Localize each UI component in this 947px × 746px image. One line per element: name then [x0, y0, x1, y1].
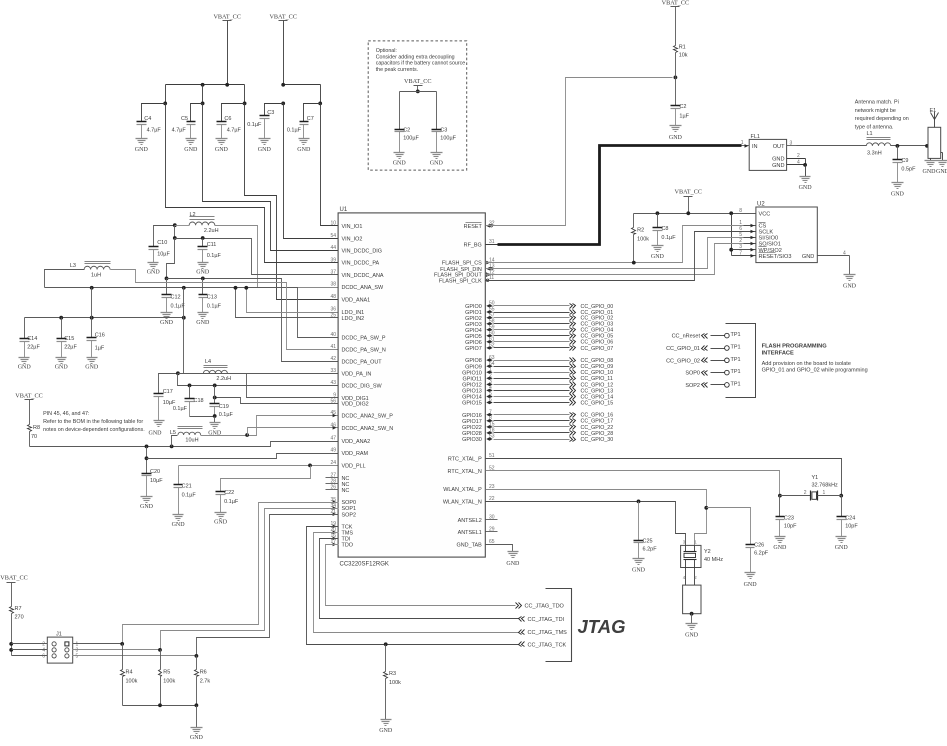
- svg-text:GND: GND: [379, 728, 393, 734]
- svg-text:C25: C25: [643, 539, 653, 545]
- pin 24 VDD_PLL (U1 left): [330, 460, 365, 469]
- pin 34 SOP1 (U1 left): [330, 503, 356, 512]
- svg-text:GND: GND: [923, 169, 937, 175]
- wire VDD_ANA2 rail (R8 line, to pin 47): [30, 442, 339, 449]
- bracket JTAG label: [546, 589, 626, 662]
- svg-text:GND: GND: [55, 364, 69, 370]
- power symbol VBAT_CC (U2): [675, 189, 703, 214]
- svg-text:10k: 10k: [679, 52, 688, 58]
- svg-text:ANTSEL1: ANTSEL1: [458, 530, 482, 536]
- pin 63 GPIO8 (U1 right GPIO): [465, 355, 495, 364]
- svg-text:capacitors if the battery cann: capacitors if the battery cannot source: [376, 61, 466, 67]
- pin 55 GPIO1 (U1 right GPIO): [465, 307, 495, 316]
- pin 2 GPIO11 (U1 right GPIO): [463, 373, 493, 382]
- svg-text:6.2pF: 6.2pF: [754, 551, 769, 557]
- pin 20 TMS (U1 left): [330, 527, 353, 536]
- svg-text:2.7k: 2.7k: [200, 678, 211, 684]
- wire verticals bank1: [163, 85, 246, 106]
- svg-text:U1: U1: [340, 207, 348, 213]
- power symbol VBAT_CC (R7): [0, 575, 28, 607]
- capacitor C10: [149, 226, 175, 263]
- svg-text:required depending on: required depending on: [855, 116, 909, 122]
- capacitor C8 0.1uF: [653, 214, 677, 246]
- wire net CC_GPIO_28: [494, 431, 614, 437]
- wire U2 GND pin4: [818, 250, 850, 274]
- wire SOP1 net: [161, 509, 339, 650]
- wire WLAN_XTAL_N net: [486, 500, 686, 546]
- capacitor C21: [174, 466, 197, 515]
- svg-text:41: 41: [330, 344, 336, 350]
- svg-text:4.7µF: 4.7µF: [172, 128, 187, 134]
- svg-text:R2: R2: [637, 227, 644, 233]
- svg-text:22µF: 22µF: [64, 345, 77, 351]
- svg-text:VIN_DCDC_ANA: VIN_DCDC_ANA: [342, 273, 384, 279]
- svg-text:GND: GND: [632, 568, 646, 574]
- svg-text:VDD_PA_IN: VDD_PA_IN: [342, 372, 372, 378]
- wire LDO_IN2 branch: [234, 286, 339, 318]
- svg-text:C5: C5: [181, 116, 188, 122]
- svg-text:1: 1: [823, 490, 826, 496]
- svg-text:37: 37: [330, 270, 336, 276]
- svg-text:DCDC_DIG_SW: DCDC_DIG_SW: [342, 384, 383, 390]
- pin 46 DCDC_ANA2_SW_N (U1 left): [330, 423, 393, 432]
- wire bus2 top bank: [281, 83, 322, 105]
- svg-text:GND: GND: [135, 147, 149, 153]
- svg-text:the peak currents.: the peak currents.: [376, 67, 418, 73]
- svg-text:0.1µF: 0.1µF: [247, 122, 262, 128]
- svg-text:VIN_IO1: VIN_IO1: [342, 224, 363, 230]
- ground under C11: [196, 263, 210, 276]
- svg-text:ANTSEL2: ANTSEL2: [458, 518, 482, 524]
- ground under C23: [773, 537, 787, 552]
- svg-text:VIN_DCDC_DIG: VIN_DCDC_DIG: [342, 249, 383, 255]
- capacitor C22: [216, 466, 311, 513]
- svg-text:3: 3: [790, 140, 793, 146]
- svg-text:CC_GPIO_01: CC_GPIO_01: [666, 346, 700, 352]
- note text PIN 45 46 47: [43, 411, 145, 433]
- capacitor C23 10pF: [776, 496, 798, 537]
- capacitor C19: [210, 386, 234, 418]
- wire DCDC_PA_SW_N (L3 right to pin 41): [111, 270, 339, 350]
- svg-text:Y2: Y2: [704, 549, 711, 555]
- capacitor C17: [154, 374, 178, 421]
- capacitor C9 0.5pF: [893, 146, 917, 183]
- svg-text:notes on device-dependent conf: notes on device-dependent configurations…: [43, 427, 145, 433]
- pin 33 VDD_PA_IN (U1 left): [330, 368, 371, 377]
- ground under C5: [184, 139, 198, 153]
- pin 12 FLASH_SPI_DOUT (U1 right): [434, 269, 495, 278]
- svg-text:C26: C26: [754, 543, 764, 549]
- wire VIN_DCDC_DIG net (C5 to pin 44): [203, 104, 339, 251]
- svg-text:CC_JTAG_TDI: CC_JTAG_TDI: [528, 617, 565, 623]
- ground under Y2: [685, 624, 699, 639]
- svg-text:10pF: 10pF: [845, 523, 858, 529]
- svg-text:CC_GPIO_16: CC_GPIO_16: [581, 413, 614, 419]
- pin 37 VIN_DCDC_ANA (U1 left): [330, 270, 383, 279]
- svg-text:4: 4: [797, 159, 800, 165]
- wire DCDC_ANA_SW net (L2 to pin 38): [173, 223, 339, 287]
- wire net CC_GPIO_03: [494, 322, 614, 328]
- svg-text:C7: C7: [307, 116, 314, 122]
- connector J1: [42, 632, 78, 664]
- svg-text:TP1: TP1: [731, 332, 741, 338]
- svg-text:VBAT_CC: VBAT_CC: [662, 0, 690, 7]
- ground under C18/C19: [208, 423, 222, 437]
- test point TP1 (SOP2): [685, 381, 740, 389]
- svg-text:2.2uH: 2.2uH: [204, 228, 219, 234]
- svg-text:CC_GPIO_17: CC_GPIO_17: [581, 419, 614, 425]
- inductor L3 1uH: [70, 262, 111, 279]
- svg-text:DCDC_ANA_SW: DCDC_ANA_SW: [342, 285, 385, 291]
- svg-text:1: 1: [741, 140, 744, 146]
- svg-text:GPIO17: GPIO17: [462, 419, 482, 425]
- capacitor C20: [142, 447, 164, 497]
- svg-text:Add provision on the board to: Add provision on the board to isolate: [762, 361, 851, 367]
- svg-text:GND: GND: [802, 254, 814, 260]
- note text antenna match: [855, 100, 909, 131]
- node CC_JTAG_TCK: [519, 642, 567, 649]
- svg-text:C10: C10: [157, 240, 167, 246]
- capacitor C7: [287, 104, 321, 139]
- svg-text:10uH: 10uH: [185, 438, 198, 444]
- svg-text:GPIO11: GPIO11: [463, 376, 482, 382]
- svg-text:C3: C3: [440, 128, 447, 134]
- wire VDD_DIG1 (L4 right to pin 9): [176, 371, 339, 397]
- svg-text:270: 270: [15, 615, 24, 621]
- inductor L5 10uH: [170, 427, 203, 444]
- wire RTC_XTAL_P net: [486, 459, 844, 498]
- pin 25 LDO_IN2 (U1 left): [330, 312, 364, 321]
- wire net CC_GPIO_06: [494, 340, 614, 346]
- svg-text:CC_JTAG_TDO: CC_JTAG_TDO: [525, 604, 565, 610]
- svg-text:CC_GPIO_02: CC_GPIO_02: [581, 316, 614, 322]
- svg-text:CC_GPIO_15: CC_GPIO_15: [581, 400, 614, 406]
- wire nRESET net: [486, 76, 678, 226]
- svg-text:0.1µF: 0.1µF: [207, 253, 222, 259]
- svg-text:VBAT_CC: VBAT_CC: [404, 78, 432, 85]
- capacitor C26 6.2pF: [746, 543, 769, 573]
- inductor L4 2.2uH: [203, 359, 231, 382]
- wire net CC_GPIO_15: [494, 400, 614, 407]
- svg-text:C18: C18: [194, 398, 204, 404]
- svg-text:RTC_XTAL_N: RTC_XTAL_N: [448, 469, 482, 475]
- svg-text:TP1: TP1: [731, 357, 741, 363]
- svg-text:10µF: 10µF: [157, 252, 170, 258]
- svg-text:RESET/SIO3: RESET/SIO3: [759, 254, 792, 260]
- svg-text:GPIO10: GPIO10: [462, 370, 482, 376]
- svg-text:24: 24: [330, 460, 336, 466]
- svg-text:LDO_IN2: LDO_IN2: [342, 316, 365, 322]
- svg-text:GPIO13: GPIO13: [462, 389, 482, 395]
- svg-text:OUT: OUT: [773, 144, 785, 150]
- ground under FL1: [799, 177, 813, 192]
- svg-text:4.7µF: 4.7µF: [227, 128, 242, 134]
- ground under C13: [196, 313, 210, 327]
- ground under C2: [669, 126, 683, 142]
- dashed optional box: [368, 41, 467, 170]
- svg-text:100µF: 100µF: [403, 136, 419, 142]
- capacitor C18: [173, 386, 204, 417]
- wire TDI net: [320, 539, 519, 619]
- wire DCDC_DIG_SW rail1 (to pin 43): [178, 374, 339, 388]
- wire net CC_GPIO_07: [494, 346, 614, 352]
- pin 36 LDO_IN1 (U1 left): [330, 307, 364, 316]
- svg-text:5: 5: [76, 653, 79, 659]
- svg-text:L1: L1: [867, 131, 873, 137]
- svg-text:R6: R6: [200, 669, 207, 675]
- capacitor C16: [87, 288, 105, 358]
- svg-text:C20: C20: [150, 469, 160, 475]
- ground under C16: [85, 358, 99, 371]
- svg-text:L4: L4: [205, 359, 211, 365]
- svg-text:VBAT_CC: VBAT_CC: [0, 575, 28, 582]
- svg-text:SOP2: SOP2: [685, 383, 700, 389]
- svg-text:U2: U2: [757, 202, 765, 208]
- svg-text:Optional:: Optional:: [376, 48, 397, 54]
- wire antenna feed: [891, 144, 929, 148]
- wire VIN_DCDC_ANA rail (to pin 37): [173, 226, 339, 275]
- wire LDO_IN1 branch: [244, 286, 338, 313]
- capacitor C11: [198, 239, 222, 263]
- svg-text:1uH: 1uH: [91, 273, 101, 279]
- crystal Y2 40 MHz: [681, 540, 724, 568]
- svg-text:GND: GND: [772, 157, 784, 163]
- ground under C25: [632, 559, 646, 574]
- wire J1 pin3 to SOP1/R5: [73, 648, 162, 652]
- ground under C8: [651, 246, 665, 261]
- ground under C3: [258, 139, 272, 153]
- wire pull-down rail: [123, 703, 199, 727]
- svg-text:PIN 45, 46, and 47:: PIN 45, 46, and 47:: [43, 411, 89, 417]
- pin 5 GPIO14 (U1 right GPIO): [462, 391, 493, 400]
- svg-text:GPIO8: GPIO8: [465, 358, 482, 364]
- pin 52 RTC_XTAL_N (U1 right): [448, 466, 495, 475]
- wire TMS net: [314, 533, 519, 633]
- svg-text:4.7µF: 4.7µF: [147, 128, 162, 134]
- svg-text:R5: R5: [163, 669, 170, 675]
- resistor R2 100k: [632, 214, 650, 263]
- pin 28 NC (U1 left): [326, 478, 350, 487]
- capacitor C13: [199, 279, 222, 313]
- resistor R1 10k: [674, 44, 688, 105]
- svg-text:Consider adding extra decoupli: Consider adding extra decoupling: [376, 54, 455, 60]
- pin 54 VIN_IO2 (U1 left): [330, 233, 362, 242]
- svg-text:GPIO_01 and GPIO_02 while prog: GPIO_01 and GPIO_02 while programming: [762, 367, 868, 373]
- pin 1 GPIO10 (U1 right GPIO): [462, 367, 493, 376]
- svg-text:C13: C13: [207, 294, 217, 300]
- node CC_JTAG_TDO: [516, 603, 565, 610]
- wire L5 left leg: [172, 436, 178, 447]
- svg-text:DCDC_PA_SW_N: DCDC_PA_SW_N: [342, 348, 386, 354]
- pin 41 DCDC_PA_SW_N (U1 left): [330, 344, 385, 353]
- capacitor C15: [57, 318, 78, 358]
- wire optional box rail: [400, 92, 437, 130]
- svg-text:GND: GND: [184, 147, 198, 153]
- svg-text:CC_GPIO_30: CC_GPIO_30: [581, 437, 614, 443]
- svg-text:22µF: 22µF: [27, 345, 40, 351]
- wire net CC_GPIO_04: [494, 328, 614, 334]
- wire net CC_GPIO_01: [494, 310, 614, 316]
- inductor L2 2.2uH: [189, 212, 218, 234]
- pin 64 GPIO9 (U1 right GPIO): [465, 361, 495, 370]
- svg-text:39: 39: [330, 257, 336, 263]
- svg-text:GND: GND: [215, 147, 229, 153]
- svg-text:56: 56: [330, 398, 336, 404]
- resistor R5 100k: [159, 650, 176, 706]
- svg-text:J1: J1: [56, 632, 62, 638]
- pin 16 TDI (U1 left): [330, 533, 350, 542]
- svg-text:L2: L2: [190, 212, 196, 218]
- svg-text:C19: C19: [219, 404, 229, 410]
- pin 32 RESET (U1 right): [464, 221, 495, 230]
- resistor R6 2.7k: [195, 656, 211, 706]
- power symbol VBAT_CC (optional box): [404, 78, 432, 93]
- svg-text:1µF: 1µF: [679, 114, 689, 120]
- pin 26 NC (U1 left): [326, 485, 350, 494]
- pin 58 GPIO3 (U1 right GPIO): [465, 319, 495, 328]
- svg-text:32.768kHz: 32.768kHz: [812, 483, 839, 489]
- svg-text:3.3nH: 3.3nH: [867, 150, 882, 156]
- wire FLASH_SPI_CS net: [486, 226, 744, 265]
- test point TP1 (CC_GPIO_02): [666, 357, 741, 365]
- capacitor C5: [172, 104, 203, 139]
- wire C26 branch: [707, 508, 751, 545]
- svg-text:C17: C17: [163, 389, 173, 395]
- svg-text:6: 6: [42, 653, 45, 659]
- svg-text:GND: GND: [843, 283, 857, 289]
- pin 30 ANTSEL2 (U1 right): [458, 515, 495, 524]
- svg-text:38: 38: [330, 282, 336, 288]
- pin 23 WLAN_XTAL_P (U1 right): [443, 484, 495, 493]
- svg-text:CC_JTAG_TMS: CC_JTAG_TMS: [528, 630, 568, 636]
- svg-text:VDD_RAM: VDD_RAM: [342, 451, 369, 457]
- test point TP1 (SOP0): [685, 369, 740, 377]
- pin 59 GPIO4 (U1 right GPIO): [465, 324, 495, 333]
- svg-text:VDD_ANA2: VDD_ANA2: [342, 439, 371, 445]
- svg-text:IN: IN: [752, 144, 758, 150]
- svg-text:CC3220SF12RGK: CC3220SF12RGK: [340, 562, 389, 568]
- svg-text:6.2pF: 6.2pF: [643, 547, 658, 553]
- svg-text:R4: R4: [126, 669, 133, 675]
- wire net CC_GPIO_10: [494, 370, 614, 377]
- pin 51 RTC_XTAL_P (U1 right): [448, 453, 495, 462]
- pin 13 FLASH_SPI_DIN (U1 right): [440, 263, 495, 272]
- svg-text:4: 4: [843, 250, 846, 256]
- wire VDD_PA_IN rail D (to pin 33): [25, 288, 339, 374]
- svg-text:TP1: TP1: [731, 369, 741, 375]
- svg-text:42: 42: [330, 356, 336, 362]
- pin 50 GPIO0 (U1 right GPIO): [465, 301, 495, 310]
- wire J1 pin5 to SOP2/R6: [73, 654, 199, 658]
- note text flash programming interface: [762, 343, 868, 373]
- svg-text:7: 7: [739, 250, 742, 256]
- svg-text:40: 40: [330, 332, 336, 338]
- pin 47 VDD_ANA2 (U1 left): [330, 436, 370, 445]
- svg-text:CC_GPIO_08: CC_GPIO_08: [581, 358, 614, 364]
- wire net CC_GPIO_00: [494, 304, 614, 310]
- svg-text:VIN_IO2: VIN_IO2: [342, 236, 363, 242]
- svg-text:CC_GPIO_02: CC_GPIO_02: [666, 358, 700, 364]
- node CC_JTAG_TDI: [519, 617, 565, 623]
- svg-text:RESET: RESET: [464, 224, 483, 230]
- wire DCDC_PA_SW_P rail A (L3 to pin 40): [45, 270, 339, 338]
- wire net CC_GPIO_08: [494, 358, 614, 365]
- wire VDD_DIG2 rail2 (to pin 56): [213, 396, 339, 404]
- svg-text:TDO: TDO: [342, 543, 353, 549]
- pin 21 SOP2 (U1 left): [330, 509, 356, 518]
- pin 44 VIN_DCDC_DIG (U1 left): [330, 245, 382, 254]
- pin 22 WLAN_XTAL_N (U1 right): [443, 496, 495, 505]
- svg-text:GPIO6: GPIO6: [465, 340, 482, 346]
- svg-text:0.1µF: 0.1µF: [224, 499, 239, 505]
- svg-text:CC_GPIO_06: CC_GPIO_06: [581, 340, 614, 346]
- pin 29 ANTSEL1 (U1 right): [458, 527, 495, 536]
- pin 45 DCDC_ANA2_SW_P (U1 left): [330, 410, 393, 419]
- ground under C20: [140, 497, 154, 510]
- svg-text:GPIO16: GPIO16: [462, 413, 482, 419]
- ground under optional C2: [393, 153, 407, 167]
- svg-text:GND: GND: [506, 561, 520, 567]
- wire WLAN_XTAL_P net: [486, 490, 709, 546]
- ground under C22: [214, 513, 228, 526]
- svg-text:GND: GND: [297, 147, 311, 153]
- svg-text:2: 2: [797, 153, 800, 159]
- svg-text:GND: GND: [160, 320, 174, 326]
- svg-text:GND_TAB: GND_TAB: [457, 542, 483, 548]
- svg-text:C9: C9: [901, 158, 908, 164]
- wire net CC_GPIO_12: [494, 382, 614, 389]
- svg-text:C15: C15: [64, 336, 74, 342]
- svg-text:100µF: 100µF: [440, 136, 456, 142]
- svg-text:R3: R3: [389, 671, 396, 677]
- ground under C15: [55, 358, 69, 371]
- antenna E1: [928, 108, 943, 161]
- svg-text:VBAT_CC: VBAT_CC: [675, 189, 703, 196]
- pin 6 GPIO15 (U1 right GPIO): [462, 397, 493, 406]
- ground under C9: [891, 183, 905, 198]
- svg-text:C4: C4: [144, 116, 151, 122]
- capacitor C3: [247, 104, 283, 139]
- svg-text:JTAG: JTAG: [578, 616, 626, 637]
- wire bus1 top bank: [166, 83, 245, 87]
- op-amp U1 CC3220SF12RGK main IC body: [338, 207, 485, 568]
- svg-text:100k: 100k: [637, 236, 649, 242]
- test point TP1 (CC_GPIO_01): [666, 345, 741, 353]
- power symbol VBAT_CC (top bank 2): [269, 14, 297, 85]
- wire VDD_RAM (to pin 49): [147, 454, 339, 459]
- svg-text:43: 43: [330, 380, 336, 386]
- capacitor C4: [137, 104, 166, 139]
- crystal Y2 case ground: [683, 568, 701, 624]
- wire DCDC_PA_OUT rail (to pin 42): [165, 239, 339, 362]
- wire WP/RESET pullup: [729, 214, 743, 256]
- wire GND_TAB to ground: [486, 545, 513, 552]
- svg-text:23: 23: [489, 484, 495, 490]
- svg-text:R8: R8: [33, 425, 40, 431]
- ground under C14: [18, 358, 32, 371]
- svg-text:GND: GND: [196, 270, 210, 276]
- power symbol VBAT_CC (R8): [15, 392, 43, 424]
- svg-text:GND: GND: [393, 160, 407, 166]
- svg-text:CC_GPIO_00: CC_GPIO_00: [581, 304, 614, 310]
- pin 53 GPIO30 (U1 right GPIO): [462, 434, 495, 443]
- pin 11 FLASH_SPI_CLK (U1 right): [439, 275, 495, 284]
- svg-text:47: 47: [330, 436, 336, 442]
- svg-text:0.1µF: 0.1µF: [287, 128, 302, 134]
- svg-text:GND: GND: [685, 633, 699, 639]
- wire SOP0 net: [123, 503, 339, 644]
- svg-text:49: 49: [330, 448, 336, 454]
